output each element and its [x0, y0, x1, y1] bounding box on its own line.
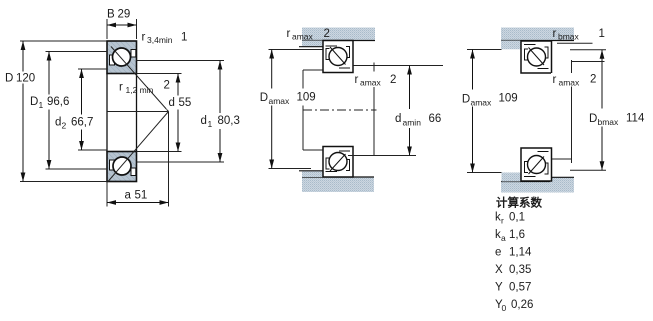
svg-text:2: 2 — [390, 74, 396, 86]
row Y 0,57 — [495, 282, 531, 294]
svg-text:r: r — [553, 28, 557, 40]
svg-text:80,3: 80,3 — [218, 115, 240, 127]
bore wall tab top left — [501, 41, 521, 50]
svg-text:1,2 min: 1,2 min — [126, 85, 154, 95]
dimension d 55 — [137, 74, 194, 152]
svg-text:D: D — [30, 96, 38, 108]
dimension D1 96,6 — [29, 52, 108, 170]
callout r_amax 2 (inner, middle view) — [355, 72, 398, 88]
svg-text:0,1: 0,1 — [509, 212, 525, 224]
svg-text:2: 2 — [324, 28, 330, 40]
svg-text:3,4min: 3,4min — [147, 35, 173, 45]
svg-text:r: r — [355, 74, 359, 86]
shaft surface bottom stub — [303, 149, 323, 151]
svg-text:0,26: 0,26 — [511, 299, 533, 311]
svg-text:D: D — [589, 113, 597, 125]
contact angle line top — [111, 47, 169, 112]
r_amax reference line (right view) — [572, 61, 605, 63]
contact angle line bottom — [108, 112, 169, 182]
svg-text:计算系数: 计算系数 — [496, 196, 542, 210]
svg-text:109: 109 — [297, 92, 316, 104]
bottom section shoulder notch left — [110, 160, 115, 170]
row X 0,35 — [495, 264, 531, 276]
svg-text:29: 29 — [118, 9, 131, 21]
svg-text:55: 55 — [179, 97, 192, 109]
bottom section ball — [329, 153, 347, 171]
callout r_amax 2 (top, middle view) — [287, 28, 330, 42]
svg-text:Y: Y — [495, 282, 503, 294]
top section ball (right view) — [528, 48, 546, 66]
svg-text:amax: amax — [559, 78, 581, 88]
bore wall tab bottom left — [502, 173, 522, 182]
ball bottom — [113, 157, 131, 175]
svg-text:96,6: 96,6 — [47, 96, 69, 108]
svg-text:66: 66 — [429, 113, 442, 125]
bottom section raceway details — [326, 151, 351, 172]
svg-text:1: 1 — [181, 32, 187, 44]
top section ball slash — [330, 47, 346, 65]
row k_r 0,1 — [495, 212, 525, 226]
dimension d2 66,7 — [54, 69, 108, 150]
outer ring top section (hatched) — [107, 41, 137, 74]
svg-text:66,7: 66,7 — [71, 117, 93, 129]
top section shoulder notch right — [131, 50, 136, 58]
bearing bore silhouette lines — [107, 74, 137, 152]
axis centerline (dash-dot) — [303, 109, 377, 111]
svg-text:120: 120 — [16, 73, 35, 85]
svg-text:d: d — [395, 113, 401, 125]
svg-text:1,14: 1,14 — [509, 247, 532, 259]
housing shoulder bar top — [302, 28, 375, 41]
svg-text:1: 1 — [208, 119, 213, 129]
svg-text:a: a — [501, 233, 506, 243]
housing bore wall tab top — [299, 41, 323, 47]
svg-text:bmax: bmax — [558, 32, 580, 42]
svg-text:D: D — [5, 73, 13, 85]
svg-text:amax: amax — [360, 78, 382, 88]
inner ring face extension vertical — [373, 63, 375, 156]
svg-text:a: a — [125, 190, 132, 202]
svg-text:d: d — [201, 115, 207, 127]
dimension D_bmax 114 — [570, 50, 647, 170]
shaft surface top stub — [303, 69, 323, 71]
svg-text:r: r — [142, 32, 146, 44]
svg-text:d: d — [55, 117, 61, 129]
svg-text:r: r — [119, 82, 123, 94]
svg-text:51: 51 — [135, 190, 148, 202]
dimension D_amax 109 (middle) — [258, 50, 323, 169]
bearing bottom section box — [323, 147, 353, 178]
axis line — [107, 111, 169, 113]
svg-text:114: 114 — [626, 113, 645, 125]
svg-text:0,35: 0,35 — [509, 264, 531, 276]
svg-text:r: r — [553, 74, 557, 86]
bottom section ball slash — [330, 154, 346, 171]
ball top — [113, 48, 131, 66]
svg-text:1: 1 — [599, 28, 605, 40]
bottom section raceway details (right view) — [524, 152, 549, 177]
bearing bottom section box (right view) — [521, 148, 552, 181]
callout r 1,2 min footnote 2 — [119, 80, 170, 96]
shaft end face line — [302, 70, 304, 150]
svg-text:r: r — [501, 216, 504, 226]
dimension D_amax 109 (right) — [460, 50, 518, 173]
dimension d_amin 66 — [348, 66, 444, 156]
svg-text:0,57: 0,57 — [509, 282, 531, 294]
svg-text:r: r — [287, 28, 291, 40]
bottom section ball slash (right view) — [529, 157, 545, 175]
top section shoulder notch left — [110, 55, 115, 65]
dimension d1 80,3 — [137, 61, 242, 163]
dimension a 51 — [107, 190, 169, 205]
svg-text:amax: amax — [471, 98, 493, 108]
left face extension for a — [106, 182, 108, 207]
svg-text:109: 109 — [499, 93, 518, 105]
svg-text:D: D — [260, 92, 268, 104]
svg-text:D: D — [462, 94, 470, 106]
svg-text:0: 0 — [502, 303, 507, 313]
top section ball — [329, 48, 347, 66]
svg-text:1: 1 — [39, 100, 44, 110]
svg-text:e: e — [495, 247, 501, 259]
top section raceway details — [326, 46, 351, 68]
shoulder bar bottom — [501, 177, 574, 192]
dimension D 120 — [3, 41, 107, 182]
bottom section ball (right view) — [528, 156, 546, 174]
row e 1,14 — [495, 247, 532, 259]
svg-text:2: 2 — [590, 74, 596, 86]
svg-text:2: 2 — [62, 121, 67, 131]
inner/outer ring bottom section (hatched) — [107, 152, 137, 182]
svg-text:amax: amax — [292, 32, 314, 42]
callout r_bmax 1 — [553, 28, 605, 43]
shoulder bar top — [501, 28, 574, 41]
callout r_amax 2 (right view) — [551, 73, 598, 88]
svg-text:d: d — [169, 97, 175, 109]
inner ring face extension vertical (right view) — [571, 60, 573, 163]
callout r 3,4min footnote 1 — [142, 32, 188, 46]
top section raceway details (right view) — [524, 45, 549, 69]
svg-text:X: X — [495, 264, 503, 276]
svg-text:B: B — [107, 9, 115, 21]
apex extension line to a-dimension — [168, 112, 170, 207]
bearing top section box (right view) — [521, 41, 552, 73]
svg-text:bmax: bmax — [598, 117, 620, 127]
svg-text:amin: amin — [403, 118, 422, 128]
svg-text:amax: amax — [269, 96, 291, 106]
bottom section shoulder notch right — [131, 168, 136, 176]
housing shoulder bar bottom — [302, 177, 374, 192]
top section ball slash (right view) — [529, 48, 545, 66]
dimension B 29 — [107, 9, 137, 40]
svg-text:2: 2 — [164, 80, 170, 92]
row Y_0 0,26 — [495, 299, 533, 313]
row k_a 1,6 — [495, 229, 525, 243]
bearing top section box — [323, 41, 353, 73]
svg-text:1,6: 1,6 — [509, 229, 525, 241]
housing bore wall tab bottom — [299, 171, 323, 177]
